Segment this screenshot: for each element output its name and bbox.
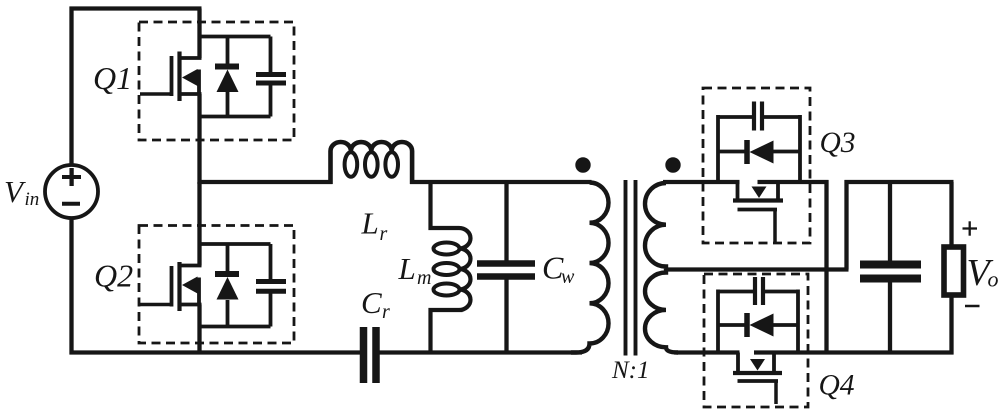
svg-text:N:1: N:1 — [611, 357, 650, 384]
node output plus — [963, 227, 978, 229]
node secondary polarity dot — [665, 157, 680, 172]
wire secondary bottom lead — [674, 350, 740, 354]
capacitor C1 parallel cap of Q1 — [269, 37, 273, 73]
dashed box Q2 — [139, 226, 294, 344]
wire Lr to transformer — [410, 180, 592, 184]
svg-text:Q3: Q3 — [820, 127, 856, 159]
wire output right rail upper — [949, 182, 953, 247]
wire Q4 right branch — [796, 290, 800, 355]
capacitor C2 parallel cap of Q2 — [269, 244, 273, 279]
svg-text:V: V — [4, 174, 26, 209]
diode D1 body diode of Q1 — [226, 37, 230, 65]
svg-text:r: r — [380, 223, 388, 245]
wire Q1 source to mid node — [197, 94, 201, 184]
Q2 arrow — [182, 277, 198, 294]
svg-text:m: m — [417, 267, 431, 289]
wire left rail upper — [69, 7, 73, 166]
svg-text:w: w — [561, 266, 575, 288]
wire secondary top lead — [663, 180, 740, 184]
Q3 arrow — [752, 187, 767, 199]
transformer secondary winding — [645, 183, 678, 353]
Q1 arrow — [182, 69, 198, 86]
wire Q3-Q4 junction vertical — [824, 180, 828, 355]
wire top rail — [70, 6, 202, 10]
inductor Lr — [331, 142, 413, 184]
diode D4 body diode of Q4 — [718, 323, 747, 327]
wire Q1 drain lead — [197, 9, 201, 59]
svg-text:Q2: Q2 — [94, 258, 133, 294]
transformer core — [624, 180, 628, 356]
wire Q3 left branch — [716, 115, 720, 184]
wire output right rail lower — [949, 295, 953, 355]
Vin minus sign — [62, 202, 80, 206]
wire center tap riser — [844, 180, 848, 270]
capacitor C3 parallel cap of Q3 — [718, 115, 752, 119]
transistor Q4 MOSFET — [736, 353, 740, 374]
dashed box Q4 — [704, 274, 808, 407]
svg-text:Q4: Q4 — [819, 370, 855, 402]
voltage source Vin — [45, 165, 98, 218]
wire bottom rail mid — [380, 350, 583, 354]
wire Q3 right branch — [798, 115, 802, 184]
wire Q1 network top — [200, 35, 271, 39]
dashed box Q1 — [139, 22, 294, 140]
capacitor Co output filter — [888, 180, 892, 261]
transistor Q3 MOSFET — [736, 182, 740, 201]
transistor Q1 MOSFET — [140, 92, 172, 96]
wire Q1 network bottom — [200, 115, 271, 119]
svg-text:L: L — [361, 206, 379, 241]
diode D3 body diode of Q3 — [718, 150, 747, 154]
transformer primary winding — [571, 183, 609, 353]
Vin plus sign — [62, 175, 81, 179]
capacitor C4 parallel cap of Q4 — [718, 290, 753, 294]
wire Q2 network top — [200, 242, 271, 246]
dashed box Q3 — [703, 88, 810, 243]
wire Q2 source to bottom rail — [197, 305, 201, 355]
resistor RL load — [944, 247, 964, 295]
node output minus — [965, 305, 980, 308]
wire center tap — [666, 267, 849, 271]
capacitor Cw — [504, 180, 508, 261]
wire left rail lower — [69, 218, 73, 355]
Q4 arrow — [750, 359, 765, 371]
wire bottom rail left — [70, 350, 361, 354]
node primary polarity dot — [575, 157, 590, 172]
wire output top rail — [845, 180, 954, 184]
svg-text:C: C — [361, 285, 382, 320]
wire Q2 drain lead — [197, 182, 201, 266]
wire Q3 output — [758, 180, 829, 184]
inductor Lm — [431, 180, 471, 355]
capacitor Cr — [360, 327, 368, 383]
wire Q4 left branch — [716, 290, 720, 355]
svg-text:o: o — [988, 267, 999, 292]
diode D2 body diode of Q2 — [226, 244, 230, 272]
svg-text:r: r — [382, 301, 390, 323]
transistor Q2 MOSFET — [140, 303, 172, 307]
svg-text:in: in — [25, 189, 40, 210]
wire Q2 network bottom — [200, 325, 271, 329]
wire output bottom rail — [754, 350, 954, 354]
svg-text:L: L — [398, 251, 416, 286]
svg-text:Q1: Q1 — [93, 60, 132, 96]
wire mid node to Lr — [200, 180, 333, 184]
